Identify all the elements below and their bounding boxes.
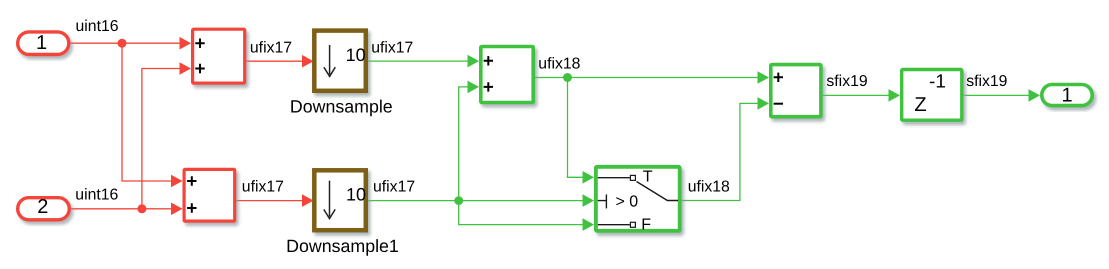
Add plus sign 1: [195, 39, 204, 48]
svg-text:ufix17: ufix17: [373, 178, 415, 195]
arrowhead into Add input 1: [180, 37, 192, 50]
svg-text:ufix17: ufix17: [250, 39, 292, 56]
wire: Add2 output to Subtract input 1: [535, 77, 760, 79]
svg-text:uint16: uint16: [76, 18, 119, 35]
arrowhead into Switch middle input: [583, 194, 595, 207]
arrowhead into Switch T input: [583, 171, 595, 184]
wire: Add output to Downsample: [246, 60, 303, 62]
wire: Downsample1 output to Switch middle input: [368, 200, 585, 202]
sum block Subtract (green): [771, 65, 821, 117]
Downsample1 block: [314, 170, 366, 230]
svg-text:F: F: [641, 216, 651, 233]
arrowhead into Add input 2: [180, 62, 192, 75]
node B junction dot: [137, 204, 146, 213]
input port 1: [18, 32, 69, 55]
Switch T terminal square: [630, 175, 635, 180]
wire: branch up from node C to Add2 input 2: [459, 87, 470, 201]
sum block Add1 (red): [184, 169, 235, 221]
wire: Subtract output to Unit Delay: [823, 94, 891, 96]
wire: port1 to Add sum input 1: [71, 42, 183, 44]
sum block Add (red): [193, 29, 245, 83]
svg-text:10: 10: [346, 45, 366, 65]
svg-text:2: 2: [37, 196, 48, 218]
arrowhead into Downsample: [302, 55, 314, 68]
Switch control input line: [598, 195, 607, 209]
Subtract plus sign: [774, 73, 783, 82]
svg-text:ufix17: ufix17: [371, 39, 413, 56]
output port 1: [1042, 85, 1092, 106]
wire: branch down from node A to Add1 input 1: [122, 43, 174, 181]
sum block Add2 (green): [481, 47, 533, 103]
Downsample block: [314, 31, 366, 91]
wire: branch up from node B to Add input 2: [142, 69, 182, 209]
svg-text:sfix19: sfix19: [966, 73, 1007, 90]
svg-text:Z: Z: [914, 94, 926, 116]
unit delay block U1: [902, 70, 962, 121]
node D junction dot: [563, 73, 572, 82]
Add1 plus sign 2: [187, 203, 196, 212]
svg-text:sfix19: sfix19: [826, 73, 867, 90]
wire: Switch output to Subtract input 2: [682, 103, 760, 200]
wire: port2 to Add1 input 2: [71, 208, 173, 210]
arrowhead into Add2 input 1: [468, 55, 480, 68]
Switch diagonal lever: [637, 182, 679, 201]
wire: Downsample output to Add2 input 1: [368, 60, 470, 62]
Switch F terminal square: [630, 222, 635, 227]
Subtract minus sign: [774, 103, 783, 105]
node A junction dot: [118, 39, 127, 48]
svg-text:10: 10: [346, 185, 366, 205]
input port 2: [18, 198, 70, 220]
Add1 plus sign 1: [187, 176, 196, 185]
Downsample1 inner down-arrow: [324, 181, 335, 219]
arrowhead into Add1 input 2: [171, 203, 183, 216]
svg-text:ufix17: ufix17: [242, 178, 284, 195]
arrowhead into Downsample1: [302, 194, 314, 207]
Downsample inner down-arrow: [324, 45, 335, 76]
Switch F input line: [598, 224, 630, 226]
svg-text:Downsample1: Downsample1: [286, 236, 399, 256]
wire: branch down from node D to Switch T input: [568, 78, 586, 178]
wire: branch down from node C to Switch F input: [459, 201, 585, 225]
wire: Add1 output to Downsample1: [236, 200, 303, 202]
arrowhead into Unit Delay: [889, 89, 901, 102]
arrowhead into Subtract input 2: [758, 97, 770, 110]
Switch block: [596, 167, 680, 231]
svg-text:Downsample: Downsample: [290, 97, 393, 117]
node C junction dot: [454, 196, 463, 205]
svg-text:T: T: [643, 169, 653, 186]
arrowhead into Add2 input 2: [468, 81, 480, 94]
svg-text:uint16: uint16: [75, 186, 118, 203]
arrowhead into Subtract input 1: [758, 71, 770, 84]
Switch T input line: [598, 177, 630, 179]
arrowhead into Switch F input: [583, 218, 595, 231]
svg-text:1: 1: [1061, 84, 1072, 106]
svg-text:ufix18: ufix18: [688, 179, 730, 196]
arrowhead into Add1 input 1: [171, 175, 183, 188]
wire: Unit Delay output to Out1: [964, 94, 1032, 96]
svg-text:-1: -1: [929, 71, 946, 92]
Add2 plus sign 2: [484, 82, 493, 91]
arrowhead into Out1: [1029, 89, 1041, 102]
svg-text:> 0: > 0: [616, 194, 639, 211]
svg-text:ufix18: ufix18: [538, 56, 580, 73]
Add plus sign 2: [195, 64, 204, 73]
Add2 plus sign 1: [484, 56, 493, 65]
svg-text:1: 1: [36, 32, 47, 54]
